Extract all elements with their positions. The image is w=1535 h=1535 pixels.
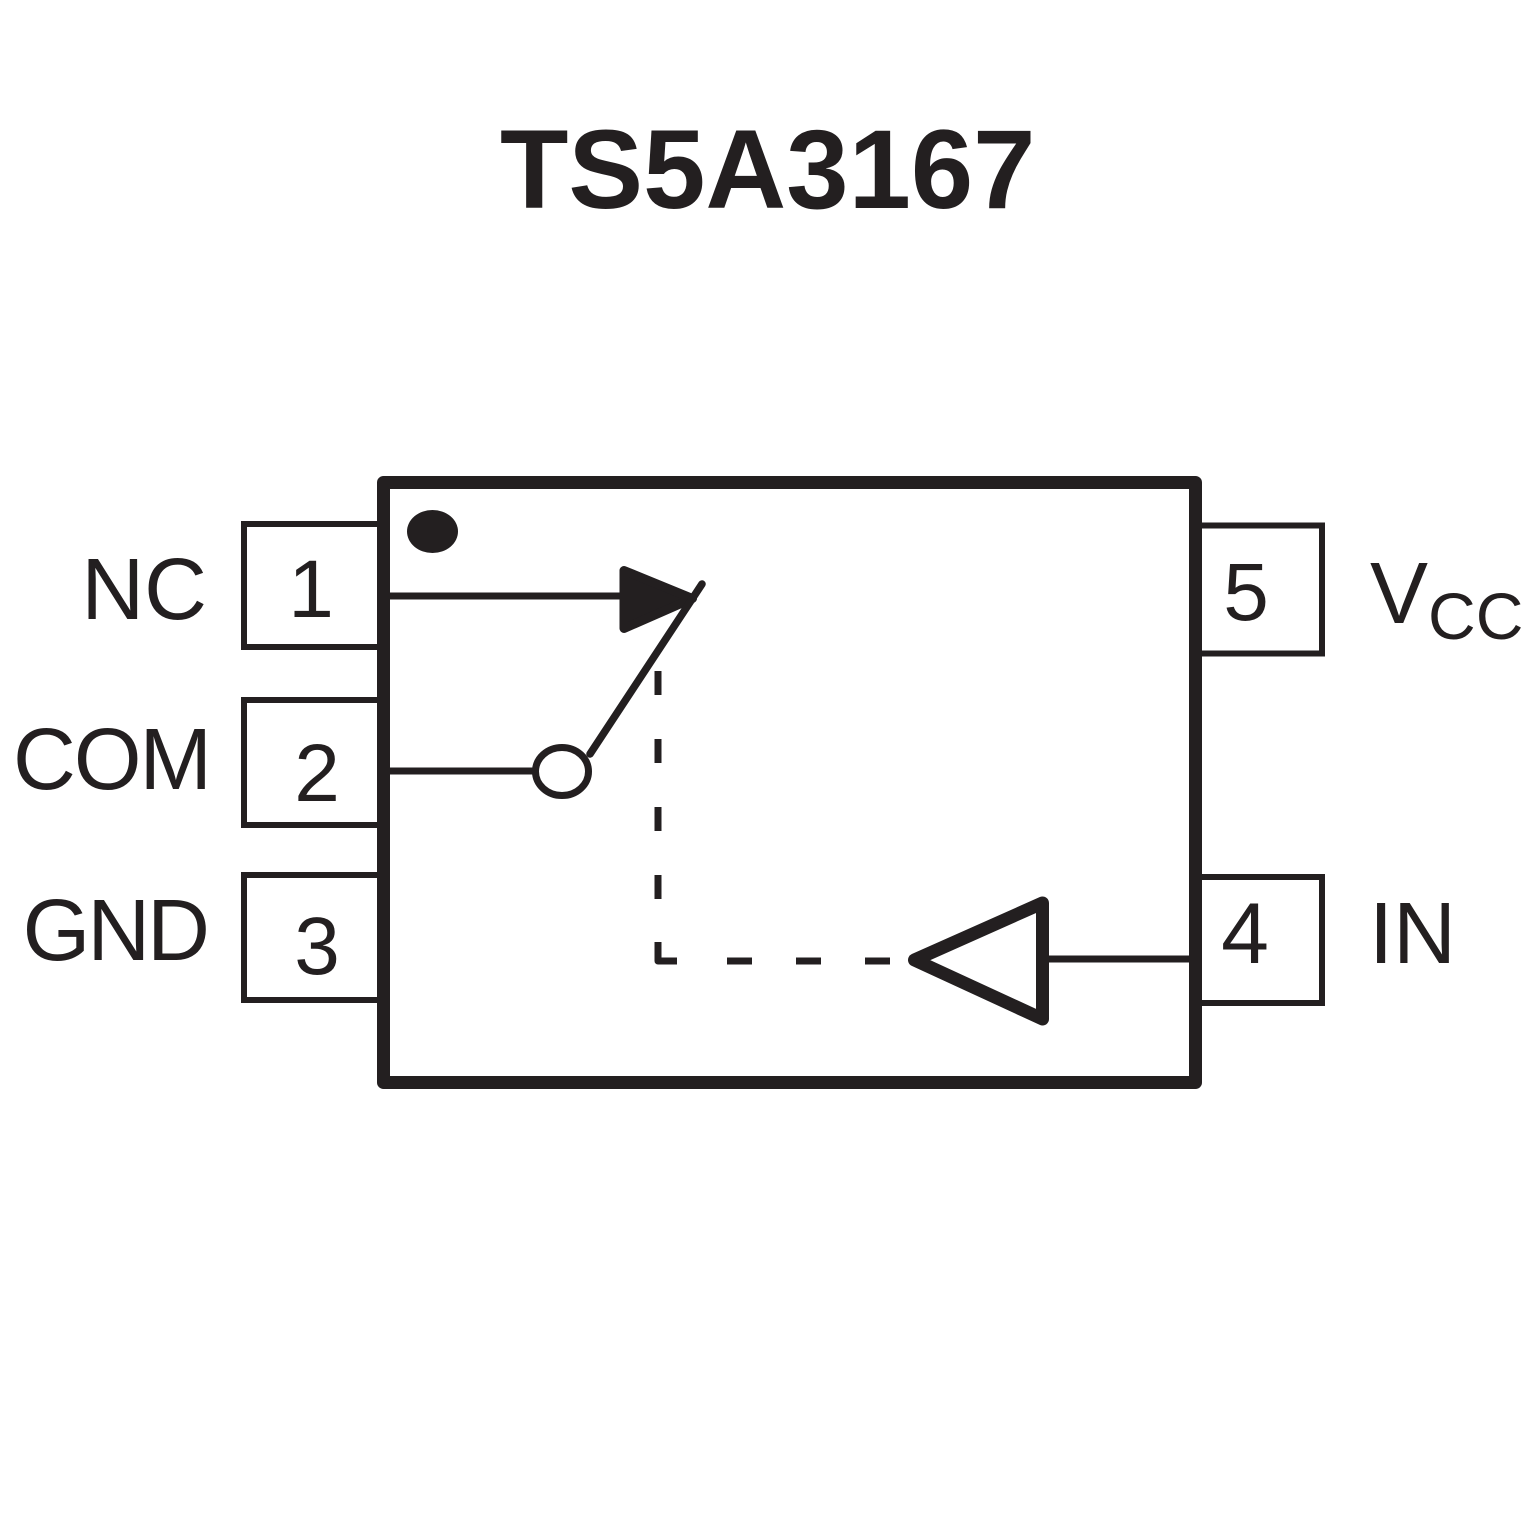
svg-text:NC: NC <box>81 541 207 638</box>
switch NC contact arrowhead <box>624 571 693 629</box>
pin 5 box <box>1199 526 1322 654</box>
wire pin1 to arrow <box>387 593 625 600</box>
switch lever <box>590 584 702 754</box>
pin 1 box <box>244 524 380 647</box>
wire pin2 to pole circle <box>387 768 536 775</box>
svg-text:GND: GND <box>23 882 207 979</box>
svg-text:2: 2 <box>294 728 340 819</box>
dashed control line vertical <box>658 671 890 961</box>
svg-text:3: 3 <box>294 901 340 992</box>
svg-text:COM: COM <box>13 711 210 808</box>
svg-text:1: 1 <box>288 544 334 635</box>
pin 1 index dot <box>407 510 458 553</box>
dashed control line corner <box>658 942 677 961</box>
inverter triangle <box>915 903 1043 1019</box>
pin 3 box <box>244 875 380 1000</box>
pin 2 box <box>244 700 380 825</box>
svg-text:IN: IN <box>1369 885 1456 982</box>
svg-text:4: 4 <box>1221 886 1269 982</box>
dashed control line horizontal <box>727 958 752 965</box>
IC body U1 <box>384 483 1196 1083</box>
pin 4 box <box>1199 877 1322 1003</box>
svg-text:TS5A3167: TS5A3167 <box>500 107 1035 232</box>
svg-text:5: 5 <box>1223 547 1269 638</box>
wire inverter to pin4 <box>1049 956 1196 963</box>
switch pole circle <box>536 748 589 796</box>
